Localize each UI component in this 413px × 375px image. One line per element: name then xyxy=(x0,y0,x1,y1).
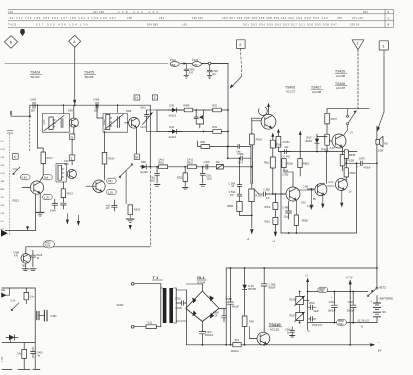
svg-text:R507: R507 xyxy=(331,117,338,121)
svg-text:= DC: = DC xyxy=(1,356,4,362)
svg-text:220: 220 xyxy=(189,70,194,74)
ground arrow audio 3 xyxy=(340,191,343,208)
transistor TS408 audio B xyxy=(307,151,328,204)
capacitor C5x9 xyxy=(303,300,319,312)
arrow on AGC wire xyxy=(26,226,29,230)
svg-text:L38: L38 xyxy=(127,16,132,20)
svg-text:8V: 8V xyxy=(313,198,316,201)
wire mains bottom to fuse xyxy=(134,326,146,328)
svg-text:502: 502 xyxy=(363,10,368,14)
resistor R5x5 lower xyxy=(264,157,275,168)
wire TS424 emitter to ground xyxy=(39,193,41,212)
capacitor C48B xyxy=(282,201,292,219)
ground arrow right osc xyxy=(77,221,80,226)
svg-text:C4x5: C4x5 xyxy=(204,161,210,164)
wire W2 mixer rail xyxy=(140,166,252,168)
svg-text:AN: AN xyxy=(106,207,110,210)
callout box K xyxy=(13,154,19,160)
ground arrow left osc xyxy=(66,220,69,225)
trimmer arrow in S1 xyxy=(45,116,65,131)
wire detector lower rail xyxy=(157,131,228,133)
svg-text:407 409: 407 409 xyxy=(93,10,104,14)
svg-text:4u7: 4u7 xyxy=(212,72,217,76)
svg-text:2: 2 xyxy=(357,42,359,46)
svg-text:D43: D43 xyxy=(169,126,174,129)
zener D49 BZY88 xyxy=(242,267,256,316)
svg-text:0.5V: 0.5V xyxy=(1,149,6,151)
top table row3 text xyxy=(8,23,360,27)
wire FM rail right xyxy=(327,108,369,110)
svg-text:1K: 1K xyxy=(214,315,217,318)
svg-text:C450: C450 xyxy=(50,315,57,318)
resistor R51B xyxy=(321,134,335,151)
svg-text:M: M xyxy=(135,155,138,159)
capacitor C876 xyxy=(213,308,226,322)
callout box 1 xyxy=(379,41,388,50)
coil of S2 xyxy=(58,165,63,180)
svg-text:0.2V: 0.2V xyxy=(1,173,6,175)
svg-text:9V: 9V xyxy=(382,310,386,314)
wire from box 1 to speaker xyxy=(377,50,384,132)
dashed boundary below x150 xyxy=(149,167,151,247)
trimmer R516 xyxy=(289,291,304,306)
svg-text:2.8V: 2.8V xyxy=(303,185,308,188)
resistor R507 xyxy=(325,113,338,134)
wire stub from IF2 to detector xyxy=(156,110,158,132)
svg-text:L30 461: L30 461 xyxy=(192,16,203,20)
svg-text:C470: C470 xyxy=(359,157,366,160)
IF transformer S2 dashed box xyxy=(103,114,128,133)
resistor tag R53B xyxy=(337,320,347,326)
svg-text:600W: 600W xyxy=(175,307,182,310)
diode DU5 xyxy=(306,134,327,152)
resistor R530 xyxy=(344,159,356,182)
svg-text:BZY88: BZY88 xyxy=(248,288,256,291)
svg-text:R52B: R52B xyxy=(302,220,308,223)
ground for C498 xyxy=(184,75,189,78)
svg-text:64uF: 64uF xyxy=(313,310,319,313)
callout box G xyxy=(69,134,74,139)
resistor tag R51B pot xyxy=(318,287,328,293)
vertical bus x251 xyxy=(250,145,252,184)
svg-text:1V: 1V xyxy=(348,191,351,194)
resistor R5x4 upper xyxy=(270,140,281,148)
transistor TS4xx second IF xyxy=(86,180,105,192)
resistor C4xx vertical xyxy=(24,288,35,304)
svg-text:R592: R592 xyxy=(134,208,141,212)
svg-text:5407: 5407 xyxy=(68,110,74,113)
svg-text:A1W: A1W xyxy=(283,169,289,172)
resistor R5x1 on W2 xyxy=(158,159,167,169)
wire TS425 collector down xyxy=(136,127,138,154)
resistor R5x7 xyxy=(265,217,278,224)
svg-text:C488: C488 xyxy=(93,98,100,102)
svg-text:250: 250 xyxy=(171,64,176,67)
fuse S11 xyxy=(146,320,161,328)
coil of IF2 xyxy=(102,114,111,129)
wire AGC vertical xyxy=(35,194,37,230)
capacitor C502 xyxy=(175,297,187,309)
svg-text:C5A1: C5A1 xyxy=(348,301,354,304)
svg-text:BA1N: BA1N xyxy=(306,140,313,143)
svg-text:10u5: 10u5 xyxy=(206,177,212,180)
callout box M xyxy=(134,154,139,159)
svg-text:F501: F501 xyxy=(170,58,177,62)
wire power bottom rail xyxy=(186,341,381,353)
junction dots on W2 xyxy=(156,166,158,168)
svg-text:C4x1: C4x1 xyxy=(140,106,146,109)
svg-text:BF195: BF195 xyxy=(85,75,94,79)
svg-text:AA119: AA119 xyxy=(169,115,177,118)
svg-text:R52B: R52B xyxy=(349,154,356,157)
svg-text:AC128: AC128 xyxy=(270,328,280,332)
IF transformer S1 dashed box xyxy=(42,114,69,133)
svg-text:534 865: 534 865 xyxy=(147,23,158,27)
transistor TS425 circle xyxy=(125,110,140,128)
svg-text:TS410: TS410 xyxy=(269,322,282,327)
secondary rail xyxy=(176,290,186,345)
wire W1 IF input rail xyxy=(30,104,151,106)
ground arrow audio 2 xyxy=(321,204,324,209)
label TS406 xyxy=(285,85,296,93)
vertical bus at x150 xyxy=(149,105,151,167)
wire detector top rail xyxy=(157,109,228,111)
capacitor C5A2 5000uF xyxy=(347,291,356,323)
label TS410 xyxy=(269,322,282,332)
svg-text:+: + xyxy=(370,299,372,303)
svg-text:D49: D49 xyxy=(169,104,174,107)
divider bus x272 xyxy=(271,133,274,194)
svg-text:0.6V: 0.6V xyxy=(22,176,28,180)
junction node on W1 at A arrow xyxy=(74,104,76,106)
wire power top rail xyxy=(226,267,378,345)
svg-text:BF195: BF195 xyxy=(31,75,40,79)
transformer T1 secondary xyxy=(169,288,176,323)
svg-text:D4B: D4B xyxy=(141,161,146,164)
svg-text:C 4B2: C 4B2 xyxy=(263,188,270,191)
resistor tag R523 xyxy=(43,240,54,248)
svg-text:R5x1: R5x1 xyxy=(158,161,164,164)
resistor R5x2 on W2 xyxy=(187,159,196,169)
svg-text:R560: R560 xyxy=(256,138,263,142)
capacitor in S1 xyxy=(61,119,63,128)
svg-text:R517: R517 xyxy=(289,315,296,318)
svg-text:C50x: C50x xyxy=(319,291,325,293)
callout box H xyxy=(134,95,140,100)
svg-text:1000uF: 1000uF xyxy=(205,334,214,337)
label TS408 xyxy=(335,82,347,90)
diode D4y xyxy=(6,335,18,343)
capacitor C5x1 below W2 xyxy=(150,167,160,186)
svg-text:0.47: 0.47 xyxy=(238,162,243,165)
wire C488 down to IF2 xyxy=(96,105,98,118)
svg-text:220V: 220V xyxy=(117,303,124,307)
svg-text:3: 3 xyxy=(154,96,156,100)
wire TS406 base left xyxy=(252,118,262,134)
gram lower rail xyxy=(2,341,35,343)
svg-text:C5B0: C5B0 xyxy=(226,298,233,301)
trimmer arrow in IF2 xyxy=(105,115,124,130)
svg-text:1.2V: 1.2V xyxy=(108,190,114,194)
oscillator transistor xyxy=(64,160,76,179)
svg-text:T 1: T 1 xyxy=(153,275,160,280)
leader wire from box 2 xyxy=(230,48,242,88)
capacitor C470 xyxy=(346,157,378,169)
svg-text:.01 L32 L76 186 205 203 207 L8: .01 L32 L76 186 205 203 207 L85 L91 4 L3… xyxy=(8,16,116,20)
ground arrow below bus x251 xyxy=(250,229,253,234)
svg-text:C4V: C4V xyxy=(301,201,306,204)
svg-text:AA119: AA119 xyxy=(140,171,148,174)
tuning line left (dial) xyxy=(5,63,168,65)
resistor R56 on takeoff xyxy=(200,141,209,148)
svg-text:3.5W: 3.5W xyxy=(378,149,384,152)
supply arrow +7.7V xyxy=(345,275,352,345)
volume wiper arrow xyxy=(253,189,262,194)
maker crest logo xyxy=(20,29,25,36)
left edge bus dashed xyxy=(9,134,11,236)
svg-text:NETZ: NETZ xyxy=(379,286,387,290)
capacitor C4B2 xyxy=(263,188,286,200)
label 0.1uF 1.5 xyxy=(358,319,370,328)
label TS424 xyxy=(30,71,42,80)
svg-text:1.2V: 1.2V xyxy=(44,195,50,199)
junction dot volume takeoff xyxy=(227,146,229,148)
trimmer R517b xyxy=(289,305,304,323)
label TS407 xyxy=(311,85,323,93)
svg-text:2Y: 2Y xyxy=(350,132,353,135)
fuse S12 xyxy=(231,338,242,353)
svg-text:C 48B: C 48B xyxy=(282,206,289,209)
top table row2 text xyxy=(8,16,363,20)
svg-text:5000uF: 5000uF xyxy=(347,311,355,313)
svg-text:T+L31: T+L31 xyxy=(8,23,17,27)
svg-text:800uF: 800uF xyxy=(269,286,277,289)
svg-text:4.2V: 4.2V xyxy=(330,147,335,150)
capacitor C4x6 xyxy=(61,203,67,209)
svg-text:AC187: AC187 xyxy=(336,86,346,90)
top table row1 text xyxy=(8,10,368,14)
resistor R52 xyxy=(212,126,221,133)
resistor box gram xyxy=(17,342,27,369)
svg-text:464 967 456 205 465 466 458 45: 464 967 456 205 465 466 458 459 461 462 xyxy=(222,16,294,20)
capacitor C488 xyxy=(93,98,100,113)
wire takeoff to C568 xyxy=(227,147,251,160)
value tag R4x xyxy=(107,178,117,183)
svg-text:C50x: C50x xyxy=(338,324,344,326)
arrow on tuning line xyxy=(184,62,187,64)
svg-text:R517: R517 xyxy=(46,156,53,160)
capacitor C498 xyxy=(184,64,195,75)
capacitor C4x5 on W2 xyxy=(204,161,210,169)
svg-text:SP6: SP6 xyxy=(64,163,69,166)
svg-text:BATTERIE: BATTERIE xyxy=(380,297,394,301)
capacitor C487 xyxy=(30,98,37,113)
gram input rail top xyxy=(2,287,35,289)
svg-text:C4x3: C4x3 xyxy=(140,126,146,129)
svg-text:C4x4: C4x4 xyxy=(50,210,56,213)
wire TS424 base to left xyxy=(22,187,30,189)
ground arrow audio 1 xyxy=(307,188,314,211)
dashed wire from triangle down xyxy=(357,50,359,109)
capacitor pair C450 xyxy=(37,310,57,321)
wire A collector to B base xyxy=(297,185,314,190)
resistor RG1 xyxy=(212,105,221,112)
svg-text:R5x1: R5x1 xyxy=(265,221,271,224)
gram ground rail xyxy=(2,368,40,370)
svg-text:R5x2: R5x2 xyxy=(187,161,193,164)
svg-text:C560: C560 xyxy=(238,153,244,156)
svg-text:L3.: L3. xyxy=(1,141,4,143)
capacitor C5A1 5000uF xyxy=(328,291,337,323)
wire mixer to G to L xyxy=(72,127,74,165)
svg-text:2k2: 2k2 xyxy=(151,179,156,182)
svg-text:TS425: TS425 xyxy=(84,71,94,75)
callout box L xyxy=(69,155,74,160)
svg-text:8V: 8V xyxy=(378,348,382,352)
node triangle callout xyxy=(352,40,364,50)
earphone jack contacts xyxy=(344,109,357,136)
resistor R515 xyxy=(61,182,73,202)
wire mains top xyxy=(134,283,161,285)
capacitor C52x below W2 xyxy=(200,167,212,186)
wire tank1 top stub xyxy=(62,105,64,113)
svg-text:R54B: R54B xyxy=(227,205,233,208)
svg-text:471 472: 471 472 xyxy=(352,16,363,20)
svg-text:C502: C502 xyxy=(175,297,182,300)
trimmer box on W2 xyxy=(216,161,224,169)
svg-text:7k8: 7k8 xyxy=(22,265,27,268)
transistor TS424 first IF xyxy=(30,181,43,194)
capacitor C568 xyxy=(238,153,244,165)
capacitor C4x4 xyxy=(50,199,58,213)
svg-text:PP06: PP06 xyxy=(102,120,104,126)
detector transistor cluster xyxy=(13,247,30,268)
svg-text:R53L: R53L xyxy=(177,176,183,179)
wire AGC long line xyxy=(26,246,151,248)
svg-text:R56: R56 xyxy=(200,141,205,144)
wire audio top rail xyxy=(281,151,357,153)
svg-text:AD: AD xyxy=(384,141,388,145)
IF transformer T3 trimmer xyxy=(140,106,157,131)
wire AGC horizontal xyxy=(5,229,36,231)
resistor R52B emitter xyxy=(340,147,354,171)
capacitor C4x5 xyxy=(106,200,117,211)
svg-text:470uF: 470uF xyxy=(363,167,371,170)
left edge pin labels xyxy=(1,141,6,231)
transistor TS410 xyxy=(250,326,270,345)
mains terminal top xyxy=(131,282,134,285)
svg-text:C487: C487 xyxy=(30,98,37,102)
resistor R517 xyxy=(41,152,53,164)
choke F502 xyxy=(192,58,228,67)
top table right index cells xyxy=(388,10,391,27)
junction dot detector rails xyxy=(195,109,197,111)
capacitor C4A6 xyxy=(30,250,42,266)
svg-text:F502: F502 xyxy=(192,58,199,62)
diode D4B xyxy=(140,161,148,174)
capacitor C5x5 xyxy=(308,317,323,327)
svg-text:5x09: 5x09 xyxy=(126,110,132,113)
AM/FM switch contact xyxy=(119,164,133,204)
resistor R592 xyxy=(128,205,141,215)
svg-text:C5x9: C5x9 xyxy=(309,302,315,305)
svg-text:5506: 5506 xyxy=(42,120,44,126)
svg-text:529 20: 529 20 xyxy=(350,23,360,27)
choke F501 xyxy=(170,58,179,67)
resistor R514 xyxy=(102,131,115,180)
svg-text:+7.7V: +7.7V xyxy=(345,275,352,279)
capacitor C560b xyxy=(285,327,310,337)
svg-text:TS424: TS424 xyxy=(30,71,40,75)
svg-text:4.2Y: 4.2Y xyxy=(328,181,333,184)
svg-text:AC188: AC188 xyxy=(312,90,322,94)
svg-text:C4x2: C4x2 xyxy=(187,159,193,162)
ground below R592 xyxy=(126,219,134,223)
coupling cap C4x9 xyxy=(236,145,250,154)
resistor R5x6 xyxy=(265,203,278,210)
svg-text:AC188: AC188 xyxy=(336,74,346,78)
svg-text:61.7W L5Y: 61.7W L5Y xyxy=(358,319,370,322)
switch NETZ xyxy=(367,286,386,297)
node B diamond callout xyxy=(4,36,17,49)
capacitor C56A 47k xyxy=(229,186,242,197)
label TS425 xyxy=(84,71,96,80)
svg-text:5000uF: 5000uF xyxy=(328,311,336,313)
svg-text:AA119: AA119 xyxy=(169,136,177,139)
label GL1 xyxy=(197,275,207,284)
transistor TS407 driver xyxy=(329,134,349,154)
value tag 0.6V xyxy=(20,175,30,180)
svg-text:R4x: R4x xyxy=(108,179,113,183)
value tag 1.2V second xyxy=(107,189,117,194)
bridge rectifier GL1 xyxy=(186,284,219,322)
svg-text:L30: L30 xyxy=(8,10,13,14)
svg-text:R514: R514 xyxy=(108,156,115,160)
svg-text:REE1: REE1 xyxy=(303,163,310,166)
transistor TS426 audio A xyxy=(281,168,306,215)
ground pair below detector xyxy=(22,263,36,270)
resistor R54B xyxy=(227,196,253,216)
svg-text:250: 250 xyxy=(193,64,198,67)
svg-text:GL1: GL1 xyxy=(197,275,206,280)
capacitor C496 xyxy=(207,62,218,76)
diode D43 xyxy=(168,126,182,139)
wire volume takeoff xyxy=(198,141,238,147)
svg-text:C5x5 47u: C5x5 47u xyxy=(312,324,323,327)
svg-text:400uF: 400uF xyxy=(232,306,240,309)
callout box 3 xyxy=(152,95,157,100)
mixer transistor TS423 xyxy=(68,105,78,127)
svg-text:R65: R65 xyxy=(249,320,254,324)
switch S2k xyxy=(10,299,19,310)
svg-text:501 503 534 535 562 563 517 52: 501 503 534 535 562 563 517 521 528 500 … xyxy=(243,23,337,27)
battery cells xyxy=(370,296,386,323)
node A diamond callout xyxy=(69,35,81,47)
svg-text:AC127: AC127 xyxy=(286,90,296,94)
transistor TS406 circle xyxy=(259,103,276,130)
wire battery bottom xyxy=(308,322,377,324)
resistor R551 xyxy=(276,136,290,151)
tuning line right segment xyxy=(181,63,229,65)
wire from node A down to IF input xyxy=(73,47,76,105)
svg-text:1P52B: 1P52B xyxy=(346,158,354,162)
diode D49 xyxy=(168,104,182,117)
coil of S1 xyxy=(42,117,55,129)
capacitor C56A 1uF xyxy=(229,158,242,188)
wire audio bottom rail xyxy=(281,162,357,234)
svg-text:R530: R530 xyxy=(350,172,357,175)
svg-text:R5x3: R5x3 xyxy=(265,206,271,209)
